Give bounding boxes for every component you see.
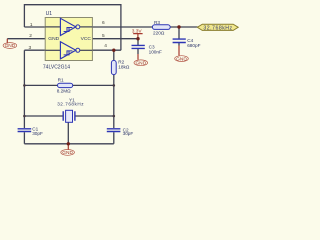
op-amp U1 body box [43,11,93,70]
svg-text:GND: GND [135,61,146,67]
svg-text:6: 6 [102,20,105,26]
svg-text:30pF: 30pF [123,131,134,136]
svg-text:100nF: 100nF [149,49,162,54]
svg-text:R1: R1 [58,78,64,83]
wire crystal case to ground [67,122,69,144]
wire R1 row left [24,84,57,86]
wire crystal row left [24,115,63,117]
capacitor C4 [173,38,201,48]
svg-text:1: 1 [30,22,33,28]
capacitor C1 [18,126,43,136]
wire C3 stems [137,39,139,54]
svg-text:GND: GND [176,56,187,62]
svg-text:U1: U1 [46,11,53,17]
svg-text:32.768kHz: 32.768kHz [203,25,232,31]
wire left vertical [23,50,25,144]
svg-text:GND: GND [62,150,73,156]
wire pin1 [24,26,45,28]
wire C4 stems [178,27,180,46]
svg-text:4: 4 [104,43,107,49]
junction dot R1 left [23,84,26,87]
svg-text:8.2MΩ: 8.2MΩ [57,88,71,93]
svg-text:30pF: 30pF [32,131,43,136]
ground GND below C4 [175,46,189,63]
junction dot R1 right [113,84,116,87]
junction dot 3.3V node [136,37,139,40]
svg-text:R3: R3 [154,20,160,25]
inverter U1A [45,18,92,35]
wire pin5 to 3.3V node [92,38,138,40]
ground GND below C3 [134,54,148,67]
wire R1 row right [73,84,114,86]
wire pin6 to R3 [92,26,152,28]
svg-text:74LVC2G14: 74LVC2G14 [43,64,70,70]
resistor R3 [152,20,170,35]
inverter U1B [45,42,92,59]
ground GND left (pin2) [3,39,17,50]
wire bottom row [24,143,113,145]
wire right vertical [113,75,115,144]
ground GND bottom center [61,144,75,156]
wire R2 top stem [113,50,115,60]
capacitor C3 [132,44,163,54]
port 32.768kHz output flag [197,24,238,31]
wire pin2 [7,38,45,40]
svg-text:GND: GND [5,43,16,49]
svg-text:680pF: 680pF [187,43,200,48]
resistor R2 [111,60,129,75]
junction dot ground bottom [67,142,70,145]
power port 3.3V [132,29,143,39]
crystal Y1 [57,97,84,122]
junction dot crystal right [113,115,116,118]
wire feedback loop top [24,5,121,51]
wire crystal row right [75,115,114,117]
svg-text:220Ω: 220Ω [153,30,165,35]
svg-text:5: 5 [102,33,105,39]
junction dot C4 node [177,25,180,28]
junction dot R2 top [112,49,115,52]
svg-text:18kΩ: 18kΩ [118,65,130,70]
svg-text:VCC: VCC [81,36,92,42]
junction dot crystal left [23,115,26,118]
wire pin4 [92,49,121,51]
svg-text:32.768kHz: 32.768kHz [57,102,84,107]
svg-text:3: 3 [29,45,32,51]
svg-text:GND: GND [48,36,59,42]
capacitor C2 [107,127,134,136]
wire pin3 [24,49,45,51]
wire R3 to port [170,26,197,28]
svg-text:2: 2 [29,33,32,39]
resistor R1 [57,78,73,94]
